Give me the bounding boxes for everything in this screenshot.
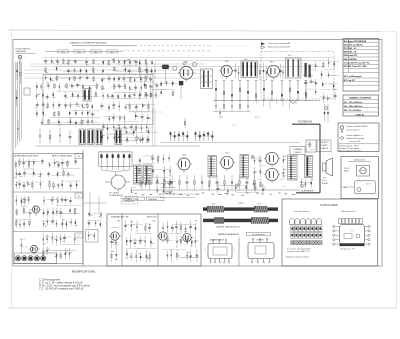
ampli heading: [52, 154, 73, 157]
component reference labels row: [135, 193, 296, 196]
svg-text:mesurée HT: mesurée HT: [350, 140, 361, 143]
svg-text:HP : les valeurs mesurées: HP : les valeurs mesurées: [339, 150, 361, 153]
coupling parts 1: [234, 63, 239, 80]
band2 label box: [75, 193, 83, 198]
svg-text:OSCILLOG.: OSCILLOG.: [354, 160, 366, 162]
second row mid components: [141, 175, 255, 190]
AM osc coil L2: [144, 165, 153, 184]
svg-text:PLAN CLAVIER: PLAN CLAVIER: [321, 204, 338, 207]
alimentation heading: [15, 154, 39, 157]
svg-text:GAMMES COUVERTES: GAMMES COUVERTES: [349, 97, 372, 100]
tube V3 EF89: [265, 62, 281, 80]
svg-text:C 2 : 10 000 µF remplacé par 6: C 2 : 10 000 µF remplacé par 6 960 µF: [39, 287, 84, 291]
FM platine thick boundary: [292, 120, 320, 193]
commande tonalite box: [290, 147, 305, 155]
AM osc coil L1: [134, 165, 143, 184]
band selector switch bank: [99, 152, 132, 175]
BF coupling can 1: [208, 156, 216, 178]
band3 left components: [19, 238, 28, 253]
IF transformer FI2: [286, 55, 302, 78]
svg-text:ALIMENTATION SECTEUR: ALIMENTATION SECTEUR: [15, 154, 39, 157]
FM coil can B: [88, 129, 95, 145]
coil circle: [173, 66, 177, 70]
screw mark 2: [300, 184, 303, 187]
am osc components: [157, 177, 177, 196]
band2 components left: [15, 195, 32, 228]
left bands outer: [13, 154, 83, 264]
tube V10 preamp2: [28, 245, 39, 255]
svg-text:PO1 242 - 91: PO1 242 - 91: [344, 47, 357, 50]
svg-text:voltmètre électronique: voltmètre électronique: [346, 137, 365, 140]
vertical pair wires: [153, 108, 156, 146]
mid bus line 2: [160, 142, 300, 144]
FM platine tab labels: [45, 50, 212, 54]
cadre side components: [130, 188, 136, 194]
FM platine top line: [72, 45, 252, 47]
svg-text:les touches sont représentées: les touches sont représentées: [287, 247, 311, 250]
svg-text:HP 2 ap 217: HP 2 ap 217: [344, 80, 356, 82]
IF transformer FI1: [241, 59, 258, 78]
left bus wires: [16, 62, 22, 148]
svg-text:FI 455 Kc: FI 455 Kc: [356, 113, 366, 116]
band1 label box: [75, 154, 83, 159]
output transformer bottom view: [248, 238, 274, 263]
svg-text:6GT200 Trans 477 / 580: 6GT200 Trans 477 / 580: [344, 65, 367, 68]
svg-text:GO1 517 mc 580 Kc: GO1 517 mc 580 Kc: [344, 44, 364, 46]
fm bottom components: [39, 128, 158, 144]
IF strip left components: [139, 80, 178, 99]
svg-text:fil rouge vers + HT: fil rouge vers + HT: [340, 248, 356, 250]
ratio det dark caps: [305, 63, 311, 78]
svg-text:T.B.4: T.B.4: [182, 154, 186, 156]
band3 label box: [75, 233, 83, 238]
svg-text:AMPLI CORRECTEUR: AMPLI CORRECTEUR: [52, 154, 73, 157]
mid column small box: [86, 230, 98, 242]
voltage diamond: [291, 100, 296, 103]
left bands divider 2: [13, 231, 83, 233]
dial scale bar lower: [203, 217, 278, 224]
page right edge: [396, 31, 398, 308]
svg-text:7 lamp GO-PO mod 477 Kc: 7 lamp GO-PO mod 477 Kc: [344, 61, 371, 64]
tube V9 preamp: [30, 206, 41, 216]
under tube blob: [179, 81, 183, 99]
mid column wires: [83, 192, 107, 214]
FM inner box: [43, 75, 153, 125]
second row far mesh: [281, 157, 314, 189]
page bottom edge: [8, 307, 397, 309]
dial bars caption: [216, 225, 240, 228]
svg-text:AMPLI B.F.: AMPLI B.F.: [147, 215, 157, 218]
FM platine bottom line: [36, 145, 201, 147]
svg-text:B.F.: B.F.: [344, 187, 348, 189]
FM tuner mesh B: [101, 58, 155, 100]
title block table: [343, 39, 379, 92]
svg-text:PLATINE FM: PLATINE FM: [298, 120, 311, 123]
FM tuner mesh D: [101, 101, 156, 143]
svg-text:FMo 100 M50: FMo 100 M50: [344, 59, 358, 61]
svg-text:REGL.: REGL.: [344, 171, 350, 173]
svg-text:TRANSFORMATEUR: TRANSFORMATEUR: [217, 233, 239, 236]
oscillator coil assembly: [201, 69, 213, 89]
mid column components: [87, 211, 103, 227]
loudspeaker: [322, 158, 333, 185]
svg-text:T.C.: T.C.: [77, 236, 81, 238]
svg-text:CADRE ANT.: CADRE ANT.: [15, 50, 27, 53]
choke can: [305, 156, 313, 178]
left sparse verticals: [139, 60, 155, 80]
above dial light mesh: [208, 181, 265, 195]
right edge column: [320, 58, 340, 103]
svg-text:T.B.7: T.B.7: [282, 176, 286, 178]
screw mark 1: [251, 155, 254, 158]
version note: [15, 48, 35, 53]
FM platine title: [69, 42, 107, 45]
FM tuner mesh A: [36, 58, 100, 100]
svg-text:1: 1: [205, 249, 206, 251]
svg-text:Réf Appro TECHNIQUE: Réf Appro TECHNIQUE: [344, 40, 367, 43]
schematic border frame: [13, 40, 382, 267]
svg-text:T.B.5: T.B.5: [225, 153, 229, 155]
trimmer capacitor: [161, 65, 171, 80]
left bands divider 1: [13, 191, 83, 193]
transformer section divider: [238, 238, 240, 267]
tube V7 EM84: [264, 168, 286, 183]
tube V1 ECC85: [178, 62, 195, 82]
page top edge: [8, 30, 397, 32]
svg-text:EXTERIEURE: EXTERIEURE: [122, 201, 134, 203]
second row bottom bus: [133, 189, 300, 191]
antenna symbol: [18, 55, 22, 64]
small box above speaker: [306, 140, 316, 152]
tube V5 EBF80: [219, 153, 235, 172]
svg-text:PLATINE BF: PLATINE BF: [301, 189, 314, 192]
tube V7 EF89 am-bf: [152, 221, 169, 243]
svg-text:4: 4: [234, 249, 235, 251]
svg-text:T.M.: T.M.: [117, 221, 121, 223]
ratio detector column: [303, 62, 318, 96]
svg-text:vue côté contacts: vue côté contacts: [294, 210, 309, 213]
left edge components: [16, 62, 30, 138]
FM horizontal bus lines: [24, 58, 335, 79]
oscillogram box: [341, 157, 379, 199]
coupling parts 2: [259, 63, 267, 80]
AM-BF column 1 components: [110, 227, 121, 262]
tonalite clavier box: [317, 140, 331, 152]
band2 components right: [42, 196, 81, 229]
tube V4 EABC80: [176, 154, 192, 172]
wiring plan box: [282, 199, 378, 266]
AM FM legend arrows: [261, 42, 291, 49]
FM coil can A: [79, 129, 86, 145]
tube V2 ECH81: [219, 61, 234, 79]
svg-text:FMo mod 875: FMo mod 875: [344, 55, 358, 57]
svg-text:GO : 150 à 285 Kc/s: GO : 150 à 285 Kc/s: [344, 106, 363, 108]
IF ground bus: [213, 100, 320, 102]
power transformer bottom view: [205, 239, 235, 264]
antenne ext dashed box: [121, 196, 138, 204]
svg-text:côté soudures C.I.: côté soudures C.I.: [341, 210, 357, 213]
band coverage box: [343, 95, 379, 116]
tube sockets row: [15, 253, 57, 264]
test point circle: [183, 62, 197, 66]
svg-text:C 27: C 27: [232, 125, 236, 127]
FM coil can D: [83, 89, 91, 102]
svg-text:CABLAGE: CABLAGE: [148, 198, 158, 201]
svg-text:AUDAX: AUDAX: [322, 182, 329, 185]
output transformer can: [288, 155, 298, 180]
coupling parts 3: [279, 64, 284, 79]
clavier contacts table: [286, 226, 322, 259]
svg-text:PO : 187 à 580 Kc/s: PO : 187 à 580 Kc/s: [344, 102, 363, 104]
printed circuit connector diagram: [333, 219, 370, 251]
sparse mid components: [184, 108, 221, 141]
FM tuner mesh C: [35, 101, 100, 126]
svg-text:T.B.3: T.B.3: [269, 62, 273, 64]
tube V6 EL84: [264, 152, 286, 167]
mid small labels: [220, 117, 260, 127]
svg-text:PLATINE AM - BF: PLATINE AM - BF: [111, 216, 129, 219]
dial scale bar upper: [203, 202, 278, 213]
tube V6 ECH81 am-bf: [109, 221, 121, 243]
svg-text:vue de dessous: vue de dessous: [252, 234, 265, 236]
mid sparse verticals: [215, 101, 248, 112]
svg-text:Valeurs pour réception AM: Valeurs pour réception AM: [268, 42, 291, 45]
svg-text:détail des contacts du clavier: détail des contacts du clavier: [286, 256, 309, 259]
second row right mesh: [253, 155, 266, 189]
left column divider: [82, 150, 84, 266]
discriminator dashed box: [261, 52, 334, 100]
am mid wires: [160, 191, 200, 198]
AM-BF column 2 components: [124, 220, 156, 262]
page left edge: [11, 30, 13, 308]
transformer section heading: [217, 232, 270, 236]
svg-text:CADRE ANT.: CADRE ANT.: [163, 191, 174, 194]
measurement legend box: [338, 123, 379, 153]
svg-text:F.I.1: F.I.1: [244, 59, 248, 61]
svg-text:POUR VERSION: POUR VERSION: [15, 48, 30, 50]
tube V8 EBC81 am-bf: [181, 221, 198, 245]
svg-text:ANTENNE: ANTENNE: [122, 197, 131, 200]
ampli correcteur components: [47, 158, 81, 190]
right mid cap cluster: [324, 104, 329, 122]
svg-text:G.O.: G.O.: [257, 203, 261, 205]
svg-text:F.I.2: F.I.2: [288, 55, 292, 57]
svg-text:Tension contrôlée 20kΩ/V: Tension contrôlée 20kΩ/V: [346, 125, 368, 128]
svg-text:P.O.: P.O.: [212, 203, 216, 205]
hanging wires below dashed box: [257, 99, 296, 109]
svg-text:MO1 187 - 74: MO1 187 - 74: [344, 51, 357, 54]
modifications note: [39, 270, 97, 291]
svg-text:HP 1 val Elavaged: HP 1 val Elavaged: [344, 76, 362, 78]
AM-BF column 3 components: [161, 221, 199, 263]
mid bus line 1: [213, 111, 250, 113]
AM-BF label boxes: [125, 197, 164, 201]
svg-text:T.B.2: T.B.2: [224, 61, 228, 63]
svg-text:T.M.: T.M.: [152, 221, 156, 223]
svg-text:LAMPES CADRAN (6,3 V): LAMPES CADRAN (6,3 V): [216, 225, 240, 228]
second row left mesh: [139, 154, 173, 190]
svg-text:mesurée pour V: mesurée pour V: [346, 128, 360, 131]
svg-text:Tension indiquée au: Tension indiquée au: [346, 135, 363, 137]
clavier key tops row: [290, 219, 322, 225]
screw mark 3: [235, 184, 238, 187]
svg-text:FM : 87 à 100 Mc/s: FM : 87 à 100 Mc/s: [344, 110, 362, 112]
svg-text:en position repos (AM - PO): en position repos (AM - PO): [287, 250, 310, 253]
AM-BF platine box: [107, 214, 201, 266]
alimentation components: [14, 158, 44, 190]
IF hanging components: [215, 81, 308, 101]
FM coil can C: [96, 129, 122, 145]
svg-text:T.B.6: T.B.6: [282, 156, 286, 158]
BF coupling can 2: [240, 155, 249, 179]
loop antenna cadre: [105, 174, 130, 197]
svg-text:Tension secteur : 110 V: Tension secteur : 110 V: [339, 144, 359, 147]
svg-text:Valeurs pour réception FM: Valeurs pour réception FM: [268, 46, 291, 49]
band3 components: [42, 233, 81, 260]
svg-text:CHASSIS ou PLATINE FM (MOD: CHASSIS ou PLATINE FM (MODELE): [69, 42, 107, 45]
dashed connect line: [133, 111, 163, 113]
svg-text:MODIFICATIONS :: MODIFICATIONS :: [72, 270, 97, 274]
svg-text:cadran: cadran: [238, 202, 244, 205]
clavier contact groups: [170, 131, 214, 141]
